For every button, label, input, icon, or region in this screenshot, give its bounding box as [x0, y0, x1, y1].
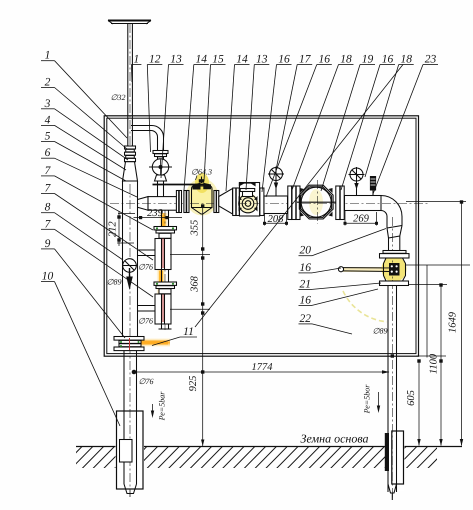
svg-text:212: 212 — [107, 221, 118, 238]
svg-text:4: 4 — [45, 114, 51, 126]
svg-text:19: 19 — [362, 54, 374, 66]
svg-text:23: 23 — [425, 54, 437, 66]
svg-text:∅64.3: ∅64.3 — [191, 168, 212, 177]
svg-text:∅76: ∅76 — [139, 377, 154, 386]
svg-text:355: 355 — [189, 220, 200, 237]
svg-text:18: 18 — [340, 54, 352, 66]
svg-text:∅89: ∅89 — [107, 278, 122, 287]
svg-text:∅32: ∅32 — [111, 93, 126, 102]
svg-text:22: 22 — [300, 313, 312, 325]
svg-text:14: 14 — [196, 54, 208, 66]
svg-text:13: 13 — [170, 54, 182, 66]
svg-text:16: 16 — [278, 54, 290, 66]
svg-text:12: 12 — [149, 54, 161, 66]
svg-text:16: 16 — [382, 54, 394, 66]
svg-text:239: 239 — [147, 208, 164, 219]
svg-text:21: 21 — [300, 278, 312, 290]
svg-text:13: 13 — [256, 54, 268, 66]
svg-text:368: 368 — [189, 275, 200, 293]
svg-text:6: 6 — [45, 147, 51, 159]
svg-text:1774: 1774 — [252, 362, 274, 373]
svg-text:1649: 1649 — [448, 311, 459, 333]
svg-text:925: 925 — [188, 376, 199, 392]
svg-text:16: 16 — [319, 54, 331, 66]
svg-text:15: 15 — [212, 54, 224, 66]
svg-text:20: 20 — [300, 245, 312, 257]
svg-text:16: 16 — [300, 294, 312, 306]
svg-text:Земна основа: Земна основа — [301, 432, 369, 446]
svg-text:5: 5 — [45, 131, 51, 143]
svg-text:∅76: ∅76 — [138, 317, 153, 326]
svg-text:208: 208 — [268, 214, 285, 225]
svg-text:3: 3 — [44, 98, 51, 110]
svg-text:605: 605 — [406, 390, 417, 406]
svg-text:9: 9 — [45, 238, 51, 250]
svg-text:1: 1 — [45, 50, 51, 62]
svg-text:Ре=5bar: Ре=5bar — [158, 391, 167, 422]
svg-text:1: 1 — [134, 54, 140, 66]
svg-text:16: 16 — [300, 262, 312, 274]
svg-text:14: 14 — [236, 54, 248, 66]
svg-text:∅76: ∅76 — [138, 263, 153, 272]
svg-text:17: 17 — [299, 54, 312, 66]
svg-text:Ре=5bor: Ре=5bor — [363, 384, 372, 415]
svg-text:269: 269 — [353, 213, 370, 224]
svg-text:∅89: ∅89 — [373, 327, 388, 336]
svg-text:18: 18 — [400, 54, 412, 66]
svg-text:2: 2 — [45, 77, 51, 89]
svg-text:8: 8 — [45, 202, 51, 214]
svg-text:10: 10 — [42, 271, 54, 283]
svg-text:1100: 1100 — [429, 353, 440, 374]
svg-text:11: 11 — [183, 326, 194, 338]
